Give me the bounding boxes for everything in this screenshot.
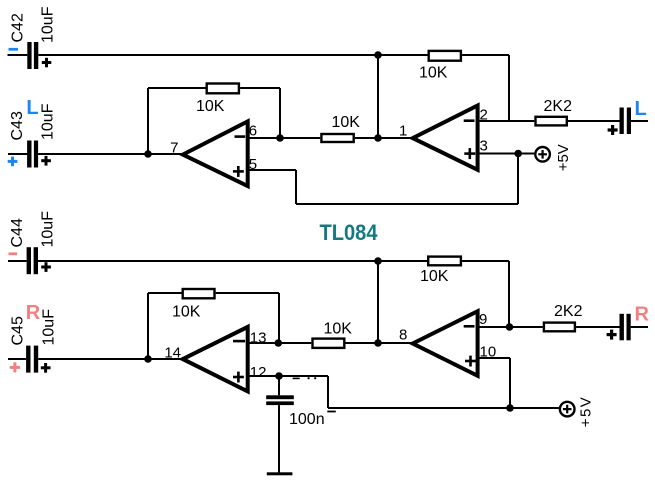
- junction dot pin 6 node: [276, 134, 284, 142]
- svg-text:10K: 10K: [420, 268, 449, 285]
- svg-text:9: 9: [479, 311, 487, 328]
- svg-text:10: 10: [480, 344, 497, 361]
- junction dot node at pin 8 row: [374, 339, 382, 347]
- black plus mark at C45: [41, 363, 51, 373]
- wire corner down to pin 2: [508, 55, 510, 121]
- wire pin 5 to the right: [248, 169, 296, 171]
- op-amp U1B (pins 1,2,3): [413, 106, 478, 170]
- svg-text:6: 6: [249, 123, 257, 140]
- svg-text:L: L: [26, 97, 38, 119]
- wire corner down to pin 9: [508, 261, 510, 327]
- wire 2K2 to output cap: [576, 326, 619, 328]
- +5V supply symbol (bottom): [560, 402, 575, 417]
- blue minus polarity mark at C42: [9, 48, 19, 51]
- svg-text:R: R: [26, 302, 41, 324]
- svg-text:C44: C44: [9, 218, 26, 247]
- junction dot pin 3 node: [514, 150, 522, 158]
- svg-text:C45: C45: [10, 316, 27, 345]
- svg-text:C42: C42: [10, 13, 27, 42]
- wire up to pin 3 node: [517, 154, 519, 205]
- resistor 10K feedback of U1C: [183, 289, 215, 298]
- junction dot pin 13 node: [275, 339, 283, 347]
- svg-text:12: 12: [250, 364, 267, 381]
- svg-text:3: 3: [480, 138, 488, 155]
- wire pin 9 to 2K2: [478, 326, 543, 328]
- wire feedback rail right part: [216, 292, 279, 294]
- svg-text:C43: C43: [9, 111, 26, 140]
- svg-text:7: 7: [170, 140, 178, 157]
- wire node X vertical: [377, 55, 379, 138]
- wire pin 10: [478, 357, 510, 359]
- black plus mark at output cap R: [607, 330, 617, 340]
- junction dot node X at pin 1 row: [374, 134, 382, 142]
- output capacitor R: [620, 314, 631, 341]
- wire feedback top rail right part: [240, 87, 280, 89]
- wire pin 6 row to 10K: [248, 137, 321, 139]
- wire pin 13 row to 10K: [248, 342, 312, 344]
- junction dot at op-amp C output node: [144, 355, 152, 363]
- svg-text:10uF: 10uF: [40, 6, 57, 43]
- svg-text:1: 1: [399, 123, 407, 140]
- capacitor C42: [8, 42, 39, 69]
- svg-text:100n: 100n: [289, 411, 325, 428]
- capacitor 100n: [266, 376, 294, 473]
- svg-text:10uF: 10uF: [41, 309, 58, 346]
- black plus mark at C44: [41, 262, 51, 272]
- black plus mark at C42: [42, 58, 52, 68]
- wire output cap L to edge: [631, 120, 648, 122]
- resistor 10K between U1A pin6 and U1B output: [321, 134, 353, 142]
- output capacitor L: [620, 108, 632, 135]
- minus mark inside U1A: [235, 135, 246, 138]
- wire feedback rail left part: [148, 292, 182, 294]
- wire C43 to op-amp A output: [38, 153, 182, 155]
- svg-text:+5V: +5V: [555, 144, 572, 171]
- minus mark inside U1C: [233, 340, 245, 343]
- junction dot on C44 rail: [374, 257, 382, 265]
- svg-text:14: 14: [164, 345, 181, 362]
- plus mark inside U1B: [464, 148, 475, 159]
- salmon plus polarity mark at C45: [10, 362, 20, 372]
- svg-text:10K: 10K: [419, 65, 448, 82]
- salmon minus polarity mark at C44: [9, 252, 18, 255]
- wire 2K2 to output cap: [568, 120, 620, 122]
- node X junction dot on top rail: [374, 51, 382, 59]
- svg-text:10K: 10K: [332, 114, 361, 131]
- svg-text:R: R: [635, 303, 650, 325]
- capacitor C44: [8, 247, 38, 274]
- op-amp U1C (pins 14,13,12): [183, 327, 248, 392]
- op-amp U1D (pins 8,9,10): [413, 311, 478, 376]
- capacitor C43: [8, 141, 38, 168]
- wire bottom run to +5V node: [296, 203, 518, 205]
- black plus mark at output cap L: [608, 125, 618, 135]
- resistor 10K feedback of U1A: [207, 84, 239, 94]
- svg-text:TL084: TL084: [320, 220, 379, 245]
- ground: [267, 472, 293, 475]
- +5V supply symbol (top): [535, 147, 550, 162]
- svg-text:10K: 10K: [196, 98, 225, 115]
- wire C45 to op-amp C output: [38, 358, 182, 360]
- svg-text:L: L: [635, 98, 647, 120]
- wire feedback left vertical (U1A): [147, 88, 149, 154]
- svg-text:+5V: +5V: [578, 396, 595, 428]
- wire C44 rail: [38, 260, 427, 262]
- wire vertical node to pin 8 row: [377, 261, 379, 343]
- junction dot at op-amp A output node: [144, 150, 152, 158]
- svg-text:2K2: 2K2: [554, 303, 583, 320]
- blue plus polarity mark at C43: [8, 157, 18, 167]
- svg-text:10uF: 10uF: [40, 211, 57, 248]
- black plus mark at C43: [41, 156, 51, 166]
- plus mark inside U1D: [465, 356, 476, 367]
- svg-text:10K: 10K: [172, 304, 201, 321]
- op-amp U1A (pins 7,6,5): [183, 121, 248, 186]
- wire pin 12 to the right: [248, 375, 328, 377]
- wire feedback right vertical down to pin 13: [278, 293, 280, 343]
- wire 10K to op-amp B output: [355, 137, 412, 139]
- junction dot pin 12 node: [275, 372, 283, 380]
- wire output cap R to edge: [631, 326, 648, 328]
- wire feedback right vertical down to pin 6: [279, 88, 281, 138]
- wire C42 rail to node X: [38, 54, 427, 56]
- wire rail right of feedback resistor: [462, 260, 509, 262]
- resistor 2K2 (L output): [536, 117, 567, 126]
- wire rail right of feedback resistor: [462, 54, 509, 56]
- resistor 10K between U1C pin13 and U1D output: [313, 339, 345, 348]
- resistor 10K feedback of U1C top: [428, 257, 461, 266]
- svg-text:8: 8: [399, 327, 407, 344]
- wire vertical to pin 10: [509, 358, 511, 408]
- svg-text:2K2: 2K2: [544, 98, 573, 115]
- minus mark inside U1B: [464, 119, 475, 122]
- junction dot pin 9 node: [506, 323, 514, 331]
- wire 10K to op-amp D output: [346, 342, 412, 344]
- wire pin 3 to +5V: [478, 153, 535, 155]
- wire down from pin 5: [295, 170, 297, 204]
- minus mark inside U1D: [464, 325, 475, 328]
- svg-text:10K: 10K: [324, 321, 353, 338]
- wire bottom rail to +5V: [328, 407, 559, 409]
- wire pin 2 to 2K2: [478, 120, 535, 122]
- resistor 2K2 (R output): [544, 323, 575, 332]
- wire feedback top rail left part: [148, 87, 206, 89]
- wire feedback left vertical (U1C): [147, 293, 149, 359]
- plus mark inside U1A: [233, 166, 244, 177]
- resistor 10K feedback of U1B: [429, 51, 461, 61]
- capacitor C45: [8, 346, 38, 373]
- residual marks near pin 12 node: [293, 377, 317, 379]
- svg-text:10uF: 10uF: [40, 103, 57, 140]
- junction dot pin 10 branch: [506, 404, 514, 412]
- plus mark inside U1C: [233, 372, 244, 383]
- residual tick below corner: [327, 411, 336, 413]
- wire down from pin 12 run: [327, 376, 329, 408]
